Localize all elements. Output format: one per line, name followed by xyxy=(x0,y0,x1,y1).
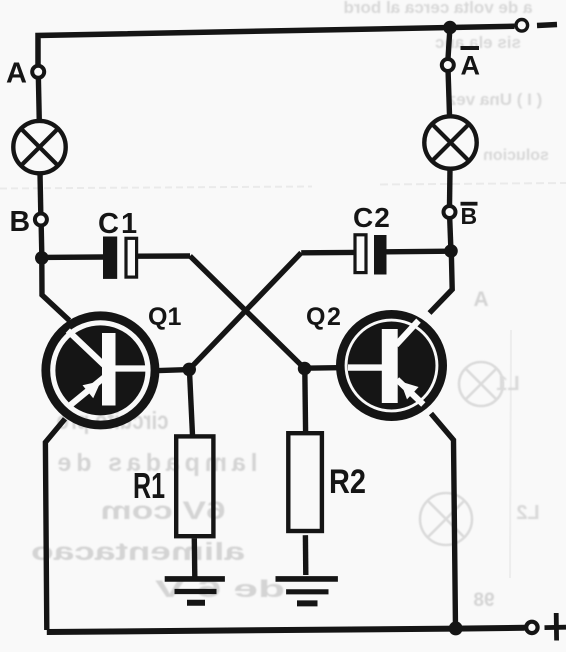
terminal plus circle xyxy=(526,622,537,633)
wire Q1 base to junction xyxy=(159,370,190,371)
node Abar xyxy=(442,59,454,71)
svg-text:alimentacao: alimentacao xyxy=(31,538,245,566)
node Bbar xyxy=(444,206,456,218)
node A xyxy=(32,66,44,78)
wire lamp L1 to node B xyxy=(37,173,43,215)
junction Q2 base / R2 xyxy=(298,362,312,376)
wire R2 to ground xyxy=(303,535,309,575)
svg-text:Q2: Q2 xyxy=(306,303,342,331)
right rail: junction to node Abar xyxy=(448,30,450,59)
wire bottom rail xyxy=(47,628,525,632)
svg-text:98: 98 xyxy=(473,590,494,611)
svg-text:L2: L2 xyxy=(516,502,539,524)
wire Q2 emitter to right rail xyxy=(431,414,456,629)
wire junction to R1 xyxy=(189,369,192,435)
wire junction to R2 xyxy=(302,369,308,433)
svg-text:A: A xyxy=(461,51,481,81)
lamp L1 xyxy=(13,121,65,173)
ground G2 xyxy=(276,579,338,604)
label Bbar xyxy=(461,202,478,229)
svg-text:R1: R1 xyxy=(133,465,165,506)
wire Bbar to junction xyxy=(450,218,451,247)
wire C1 to corner xyxy=(137,253,190,259)
svg-text:R2: R2 xyxy=(329,463,366,501)
svg-text:L1: L1 xyxy=(496,373,519,395)
lamp L2 xyxy=(424,116,476,168)
plus sign xyxy=(545,613,566,641)
wire Abar to lamp L2 xyxy=(448,72,450,119)
wire R1 to ground xyxy=(192,538,198,577)
ground G1 xyxy=(165,579,225,603)
svg-text:C2: C2 xyxy=(353,202,391,233)
svg-text:solucion: solucion xyxy=(483,147,549,164)
wire junction B down to Q1 collector xyxy=(42,258,70,321)
minus sign xyxy=(537,25,557,26)
terminal minus circle xyxy=(516,20,528,32)
svg-text:a de volta cerca al bord: a de volta cerca al bord xyxy=(344,0,533,17)
junction Q1 base / R1 xyxy=(182,363,196,377)
resistor R1 xyxy=(176,436,213,536)
svg-text:B: B xyxy=(10,206,31,238)
wire lamp L2 to node Bbar xyxy=(447,168,453,207)
svg-text:( I ) Una vez: ( I ) Una vez xyxy=(448,90,542,109)
svg-text:B: B xyxy=(461,203,478,229)
junction bottom xyxy=(449,621,463,635)
svg-text:C1: C1 xyxy=(98,208,139,240)
junction Bbar xyxy=(444,244,458,258)
svg-text:A: A xyxy=(473,288,488,311)
transistor Q1 xyxy=(46,316,155,425)
resistor R2 xyxy=(288,433,322,531)
wire Q2 base to junction xyxy=(305,365,338,371)
junction top-right xyxy=(443,21,457,35)
wire C2 to junction Bbar xyxy=(387,248,452,254)
wire A to lamp L1 xyxy=(36,79,42,123)
svg-text:A: A xyxy=(6,58,27,90)
wire C1 cross diagonal to Q2 base xyxy=(190,256,305,369)
wire C2 to corner xyxy=(301,250,355,256)
wire node B to junction xyxy=(39,226,45,255)
wire Q1 emitter to left rail xyxy=(45,419,65,630)
capacitor C1 xyxy=(103,237,137,279)
wire junction B to C1 xyxy=(42,254,104,260)
label Abar xyxy=(461,46,481,81)
svg-text:Q1: Q1 xyxy=(148,303,181,331)
wire C2 cross diagonal to Q1 base xyxy=(189,253,301,370)
wire junction Bbar down to Q2 collector xyxy=(430,251,453,313)
capacitor C2 xyxy=(355,235,387,275)
node B xyxy=(35,214,47,226)
wire top rail xyxy=(38,26,515,64)
transistor Q2 xyxy=(340,314,442,416)
junction B xyxy=(35,251,49,265)
